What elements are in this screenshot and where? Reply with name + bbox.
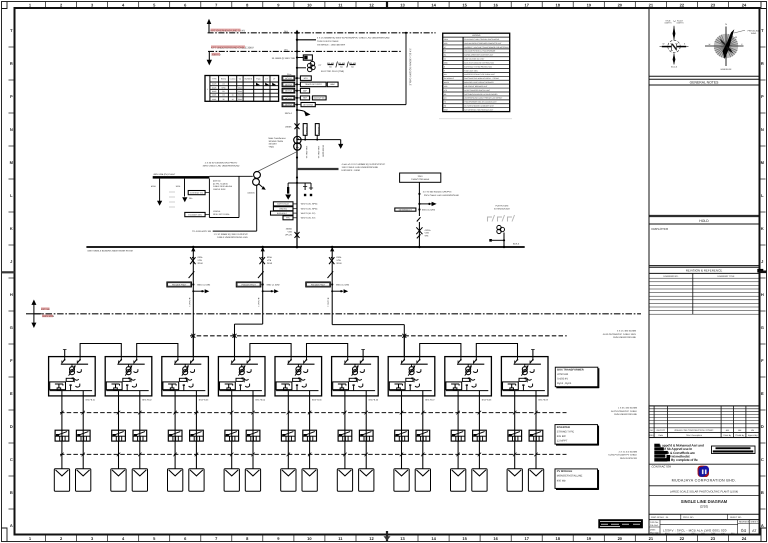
svg-text:6901 UL 5292: 6901 UL 5292 [267,283,281,286]
svg-text:MAIN SWITCHBOARD DISTRIBUTION: MAIN SWITCHBOARD DISTRIBUTION [464,61,495,64]
svg-text:METERING CT: METERING CT [399,209,413,212]
svg-text:(2/10): (2/10) [700,505,708,509]
svg-text:18: 18 [555,2,560,7]
svg-text:BHA *B.04: BHA *B.04 [255,398,265,401]
svg-text:6901 UL 5292: 6901 UL 5292 [197,283,211,286]
svg-text:P14x: P14x [287,73,291,76]
svg-text:REVISION & REFERENCE: REVISION & REFERENCE [686,269,723,273]
svg-text:CAPACITOR BANK: CAPACITOR BANK [411,178,430,181]
svg-text:SCALE: SCALE [671,66,678,69]
svg-text:REVISION: REVISION [739,521,750,524]
svg-text:4 sets of 4 X 1C 630MM SQ XLPE: 4 sets of 4 X 1C 630MM SQ XLPE/PVC/PVC [342,163,386,166]
svg-text:RUN UNDERGROUND: RUN UNDERGROUND [614,413,637,416]
svg-text:D: D [10,424,13,429]
svg-text:GEN. SETS 100%: GEN. SETS 100% [213,213,230,216]
svg-text:AM: AM [738,429,741,432]
svg-text:HOLD: HOLD [699,219,709,223]
svg-text:0.5: 0.5 [222,83,224,86]
svg-text:MONOCRYSTALLINE: MONOCRYSTALLINE [557,475,583,478]
svg-text:33KV CABLE LAID UNDERGROUND: 33KV CABLE LAID UNDERGROUND [203,165,240,168]
svg-text:SHEET: SHEET [751,521,759,524]
svg-text:SHEET NO.: SHEET NO. [730,516,742,519]
svg-text:EARTHING SYSTEM PROTECTION: EARTHING SYSTEM PROTECTION [464,65,492,68]
svg-text:VACUUM CIRCUIT BREAKER COMPLET: VACUUM CIRCUIT BREAKER COMPLETE UNIT [464,42,501,45]
svg-text:NUM: NUM [721,532,725,535]
svg-text:A: A [10,523,13,528]
svg-text:DWG: DWG [650,529,656,532]
svg-text:5P20: 5P20 [222,86,226,89]
svg-text:AL/PVC/SWA/PVC CABLE: AL/PVC/SWA/PVC CABLE [611,410,638,413]
svg-text:AL/XLPE/SWA/PVC CABLE 33KV: AL/XLPE/SWA/PVC CABLE 33KV [603,333,637,336]
svg-text:CABLE RISE 4B 4X4: CABLE RISE 4B 4X4 [213,185,233,188]
svg-text:VT: VT [444,50,446,53]
svg-text:N CL MZ 1: N CL MZ 1 [188,298,191,307]
svg-text:MCXN3: MCXN3 [285,83,292,86]
svg-text:21: 21 [649,2,654,7]
svg-text:800/5: 800/5 [212,83,216,86]
svg-text:10KA 33KV LA: 10KA 33KV LA [305,146,308,159]
svg-text:P: P [10,94,13,99]
svg-text:CU/XLPO/XLDBR PV CABLE: CU/XLPO/XLDBR PV CABLE [608,454,637,457]
svg-text:SURGE ARRESTER DIVERTER UNIT: SURGE ARRESTER DIVERTER UNIT [464,54,493,57]
svg-text:J: J [10,259,12,264]
svg-text:W: W [709,43,711,46]
svg-text:N CL MZ 1: N CL MZ 1 [327,298,330,307]
svg-text:400V AC: 400V AC [213,180,221,183]
svg-text:MCXN3: MCXN3 [285,97,292,100]
svg-text:WINDROSE: WINDROSE [721,68,733,71]
svg-text:KH: KH [751,429,754,432]
svg-text:UNDERGROUND CABLE TRENCH LAID: UNDERGROUND CABLE TRENCH LAID DIRECT [464,97,502,100]
svg-text:G: G [761,325,764,330]
svg-text:CONT: CONT [677,532,682,535]
svg-text:SINGLE RISE: SINGLE RISE [213,188,226,191]
svg-text:Chckd By: Chckd By [735,434,745,437]
svg-text:MCCB: MCCB [444,81,450,84]
svg-text:24: 24 [742,2,747,7]
svg-text:2 X 3C x 300MM SQ 33KV CABLE: 2 X 3C x 300MM SQ 33KV CABLE [409,49,412,86]
svg-text:23: 23 [711,2,716,7]
svg-text:K: K [761,226,764,231]
svg-text:1: 1 [207,88,208,91]
svg-text:TO AUXILIARY S/B: TO AUXILIARY S/B [192,230,212,233]
svg-text:20: 20 [618,536,623,541]
svg-text:24: 24 [742,536,747,541]
svg-text:2P.50: 2P.50 [336,262,342,265]
svg-text:WIND: WIND [751,32,757,35]
svg-text:PHOTOVOLTAIC MODULE ARRAY - ST: PHOTOVOLTAIC MODULE ARRAY - STRING [464,77,499,80]
svg-text:H: H [761,292,764,297]
svg-text:BS EN 60099: BS EN 60099 [322,145,325,156]
svg-text:WHDT1 (KL NPW): WHDT1 (KL NPW) [301,203,318,206]
svg-text:15: 15 [462,2,467,7]
svg-text:20: 20 [618,2,623,7]
svg-text:SINGLE LINE DIAGRAM: SINGLE LINE DIAGRAM [681,499,728,504]
svg-text:33KV A: 33KV A [285,112,293,115]
svg-text:BUS A: BUS A [513,242,520,245]
svg-text:R: R [761,61,764,66]
svg-text:10: 10 [232,94,234,97]
svg-text:STANDBY GEN: STANDBY GEN [188,213,202,216]
svg-text:AM: AM [726,429,729,432]
svg-text:12: 12 [369,536,374,541]
svg-text:2 X 33 KV DESIGN GAS PROTO: 2 X 33 KV DESIGN GAS PROTO [205,162,238,165]
svg-text:04: 04 [741,528,746,533]
svg-text:NORTH: NORTH [665,22,672,25]
svg-text:BHA *B.08: BHA *B.08 [482,398,492,401]
svg-text:DISTANCE : 100M: DISTANCE : 100M [342,169,360,172]
svg-text:22: 22 [680,536,685,541]
svg-text:100A: 100A [176,185,181,188]
svg-text:R: R [10,61,13,66]
svg-text:14: 14 [431,2,436,7]
svg-text:BHA *B.06: BHA *B.06 [369,398,379,401]
svg-text:STRING TYPE: STRING TYPE [557,430,575,433]
svg-text:FEEDER PROT: FEEDER PROT [311,284,326,287]
svg-text:10: 10 [307,536,312,541]
svg-text:DC SWITCHBOARD COMBINER UNIT: DC SWITCHBOARD COMBINER UNIT [464,105,494,108]
svg-text:MOULDED CASE CIRCUIT BREAKER: MOULDED CASE CIRCUIT BREAKER [464,81,494,84]
svg-text:EMPLOYER: EMPLOYER [652,227,670,231]
svg-text:AIR CIRCUIT BREAKER UNIT: AIR CIRCUIT BREAKER UNIT [464,85,487,88]
svg-text:FEEDER PROT: FEEDER PROT [172,284,187,287]
svg-text:A: A [761,523,764,528]
svg-text:F: F [444,69,445,72]
svg-text:4750 kVA: 4750 kVA [557,373,568,376]
svg-text:16: 16 [493,2,498,7]
svg-text:33.15MW @ 33KV TNB: 33.15MW @ 33KV TNB [272,57,296,60]
svg-text:BHA *B.03: BHA *B.03 [199,398,209,401]
svg-text:Drwn By: Drwn By [723,434,732,437]
svg-text:13: 13 [400,2,405,7]
svg-text:3 X TO 300 SQ.MM XLPE/PVC: 3 X TO 300 SQ.MM XLPE/PVC [423,191,452,194]
svg-text:22: 22 [680,2,685,7]
svg-text:400/1: 400/1 [212,94,216,97]
svg-text:CONTRACTOR: CONTRACTOR [652,465,672,469]
svg-text:12: 12 [369,2,374,7]
svg-text:P.Qty: P.Qty [256,78,260,81]
svg-text:22: 22 [735,36,737,39]
svg-text:19: 19 [587,2,592,7]
svg-text:LOW VOLTAGE 400 VOLT: LOW VOLTAGE 400 VOLT [464,58,484,61]
svg-text:DRAWING NO.: DRAWING NO. [664,275,679,278]
svg-text:THIS IS IN FS CABLE: THIS IS IN FS CABLE [317,40,339,43]
svg-text:21: 21 [649,536,654,541]
svg-text:4C PN, 70.4KVA: 4C PN, 70.4KVA [213,182,228,185]
svg-text:2P.50: 2P.50 [198,262,204,265]
svg-text:Plot Sign: Plot Sign [650,531,660,534]
svg-text:B: B [761,490,764,495]
svg-text:ELECTRO PLUS (TNB): ELECTRO PLUS (TNB) [321,70,344,73]
svg-text:630A: 630A [267,256,272,259]
svg-text:2000A: 2000A [286,228,293,231]
svg-text:DISTRIBUTION BOARD LV PANEL BO: DISTRIBUTION BOARD LV PANEL BOARD [464,93,498,96]
svg-text:WINDING: WINDING [279,208,288,211]
svg-text:04.07.22: 04.07.22 [657,429,666,432]
svg-text:WHDT1 (KL NPW): WHDT1 (KL NPW) [301,208,318,211]
svg-text:N: N [761,127,764,132]
svg-text:MUDAJAYA CORPORATION BHD.: MUDAJAYA CORPORATION BHD. [672,478,737,482]
svg-text:11KV CABLE LAID UNDERGROUND: 11KV CABLE LAID UNDERGROUND [342,166,379,169]
svg-text:CAD No.: CAD No. [650,521,659,524]
svg-text:FEEDER PROT: FEEDER PROT [241,284,256,287]
svg-text:13: 13 [400,536,405,541]
svg-text:G: G [10,325,13,330]
svg-text:23: 23 [711,536,716,541]
svg-text:33/11KV: 33/11KV [269,143,278,146]
svg-text:FOR FUTURE: FOR FUTURE [496,205,510,208]
svg-text:AUTO TRANSFER SWITCH UNIT: AUTO TRANSFER SWITCH UNIT [464,89,490,92]
svg-text:BUCHHOLZ: BUCHHOLZ [277,212,288,215]
svg-text:630A: 630A [336,256,341,259]
svg-text:0.5: 0.5 [222,94,224,97]
svg-text:19: 19 [587,536,592,541]
svg-text:KW METERING TNB REVENUE UNIT: KW METERING TNB REVENUE UNIT [464,109,493,112]
svg-text:TRANSFORMER 33/0.4KV 4000KVA U: TRANSFORMER 33/0.4KV 4000KVA UNIT [464,101,496,104]
svg-text:33 KILOVOLT HIGH TENSION SWITC: 33 KILOVOLT HIGH TENSION SWITCHGEAR [464,38,500,41]
svg-text:630A: 630A [198,256,203,259]
svg-text:NORTH: NORTH [677,22,684,25]
svg-text:2 X 1C 4.0 SQ.MM: 2 X 1C 4.0 SQ.MM [619,450,638,453]
svg-text:18: 18 [555,536,560,541]
svg-text:C: C [761,457,764,462]
svg-text:EXISTING TX1: EXISTING TX1 [190,191,203,194]
svg-text:RUN IN SPACER: RUN IN SPACER [620,457,637,460]
svg-text:CABLE UNDERGROUND LAID: CABLE UNDERGROUND LAID [217,236,248,239]
svg-text:PV MODULE: PV MODULE [444,77,455,80]
svg-text:400/1: 400/1 [212,98,216,101]
svg-text:12 MPPT: 12 MPPT [557,440,568,443]
svg-text:VCB: VCB [288,231,293,234]
svg-text:K: K [10,226,13,231]
svg-text:C: C [10,457,13,462]
svg-text:GENERAL NOTES: GENERAL NOTES [690,81,719,85]
svg-text:VCB: VCB [267,259,272,262]
svg-text:33KV: 33KV [418,175,424,178]
svg-text:Apprvd By: Apprvd By [748,434,759,437]
svg-text:EARTH FAULT: EARTH FAULT [277,203,290,206]
svg-text:H: H [10,292,13,297]
svg-text:METERING: METERING [303,103,314,106]
svg-text:B: B [10,490,13,495]
svg-text:17: 17 [524,536,529,541]
svg-text:P: P [761,94,764,99]
svg-text:ON GRADE : 1X50 400 MTR: ON GRADE : 1X50 400 MTR [317,43,346,46]
svg-text:17: 17 [524,2,529,7]
svg-text:MCXN3: MCXN3 [285,77,292,80]
svg-text:100KVA: 100KVA [247,192,255,195]
svg-text:SA 30KA: SA 30KA [305,127,308,135]
svg-text:BHA *B.01: BHA *B.01 [86,398,96,401]
svg-text:DWG SCALE : A1: DWG SCALE : A1 [651,516,669,519]
svg-text:J: J [761,259,763,264]
svg-text:33KV SINGLE BUSBAR 2000A SWGR: 33KV SINGLE BUSBAR 2000A SWGR ROOM [87,250,132,253]
svg-text:0.4/33 kV: 0.4/33 kV [557,378,568,381]
svg-text:VCB: VCB [425,232,430,235]
svg-text:EXTENSION BAY: EXTENSION BAY [494,208,511,211]
svg-text:N: N [670,42,678,53]
svg-text:Title / Description: Title / Description [686,434,703,437]
svg-text:400A: 400A [151,185,156,188]
svg-text:W: W [663,42,665,45]
svg-text:3 X 1C 400 SQ.MM: 3 X 1C 400 SQ.MM [617,330,636,333]
svg-text:800/5: 800/5 [212,86,216,89]
svg-text:BHA *B.02: BHA *B.02 [142,398,152,401]
svg-text:BCU: BCU [304,77,309,80]
svg-text:RATIO: RATIO [221,78,227,81]
svg-text:Dyn1 , Dyn1: Dyn1 , Dyn1 [557,382,572,385]
svg-text:TRAFO DIFF PROT: TRAFO DIFF PROT [305,83,323,86]
svg-text:400V MSB (PV) PLANT: 400V MSB (PV) PLANT [153,173,176,176]
svg-text:LSSPV : SPCL - MCB ALA ZWG: LSSPV : SPCL - MCB ALA ZWG 0001 020 [663,529,727,533]
svg-text:2000A: 2000A [285,125,292,128]
svg-text:INVERTER: INVERTER [557,426,570,429]
svg-text:800-400: 800-400 [338,62,346,65]
svg-text:CT: CT [444,46,446,49]
svg-text:800/5: 800/5 [212,90,216,93]
svg-text:4 X 1C 500MM SQ 33KV XLPE/SWA/: 4 X 1C 500MM SQ 33KV XLPE/SWA/PVC CABLE … [317,37,390,40]
svg-text:WHDT1 (KL KV): WHDT1 (KL KV) [301,217,316,220]
svg-text:800-400: 800-400 [349,62,357,65]
svg-text:BOX TRANSFORMER: BOX TRANSFORMER [557,368,584,371]
svg-text:PV MODULE: PV MODULE [557,470,573,473]
svg-text:4701A: 4701A [425,229,432,232]
svg-text:BHA *B.07: BHA *B.07 [425,398,435,401]
svg-text:PROJ: PROJ [665,532,670,535]
svg-text:N: N [10,127,13,132]
svg-text:FUSE UNIT 33KV: FUSE UNIT 33KV [464,69,478,72]
svg-text:6901 UL 5292: 6901 UL 5292 [336,283,350,286]
svg-text:CLASS: CLASS [230,78,237,81]
svg-text:10KA 33KV LA: 10KA 33KV LA [317,146,320,159]
svg-text:LEGEND: LEGEND [472,34,481,37]
svg-text:INVERTER STRING TYPE 215KW UNI: INVERTER STRING TYPE 215KW UNIT [464,73,495,76]
svg-text:VCB: VCB [336,259,341,262]
svg-text:PROJ. NO.: PROJ. NO. [683,516,694,519]
svg-text:30 MVA ONAN: 30 MVA ONAN [269,140,284,143]
svg-text:10: 10 [232,98,234,101]
svg-text:6301 UL 5292: 6301 UL 5292 [422,208,436,211]
svg-text:BHA *B.09: BHA *B.09 [538,398,548,401]
svg-text:VCB: VCB [198,259,203,262]
svg-text:File Ref.: File Ref. [650,524,659,527]
svg-text:N CL MZ 1: N CL MZ 1 [257,298,260,307]
svg-text:MCXN3: MCXN3 [285,104,292,107]
svg-text:RUN UNDERGROUND: RUN UNDERGROUND [613,336,636,339]
svg-text:BURDEN: BURDEN [245,78,253,81]
svg-text:1 X 3C 150 SQ.MM: 1 X 3C 150 SQ.MM [618,407,637,410]
svg-text:TYPE: TYPE [212,78,217,81]
svg-text:450 Wp: 450 Wp [557,479,566,482]
svg-text:LARGE SCALE SOLAR PHOTOVOLTAIC: LARGE SCALE SOLAR PHOTOVOLTAIC PLANT (LS… [670,490,738,493]
svg-text:1 X 3C 35MM SQ 33KV XLPE/PVC: 1 X 3C 35MM SQ 33KV XLPE/PVC [214,233,249,236]
svg-text:DRAWING TITLE: DRAWING TITLE [717,275,735,278]
svg-text:15: 15 [462,536,467,541]
svg-text:REV: REV [649,434,654,437]
svg-text:BACKUP OC: BACKUP OC [314,97,326,100]
svg-text:E: E [761,391,764,396]
svg-text:Main Transformer: Main Transformer [269,137,286,140]
svg-text:ISSUED FOR CONSTRUCTION / CONS: ISSUED FOR CONSTRUCTION / CONST. [674,429,714,432]
svg-text:100KVA: 100KVA [213,210,221,213]
svg-text:E: E [10,391,13,396]
svg-text:2PLUS: 2PLUS [285,234,292,237]
svg-text:CURRENT / VOLTAGE TRANSFORMER: CURRENT / VOLTAGE TRANSFORMER FOR METERI… [464,46,509,49]
svg-text:WHDT1 (KL PV): WHDT1 (KL PV) [301,212,316,215]
svg-text:D: D [761,424,764,429]
svg-text:2P.50: 2P.50 [267,262,273,265]
svg-text:33KV CABLE LAID UNDERGROUND: 33KV CABLE LAID UNDERGROUND [424,194,459,197]
svg-text:215 kW: 215 kW [557,435,566,438]
svg-text:BHA *B.05: BHA *B.05 [312,398,322,401]
svg-text:SA 30KA: SA 30KA [317,127,320,135]
svg-text:800-400: 800-400 [327,62,335,65]
svg-text:YNd1: YNd1 [269,145,275,148]
svg-text:16: 16 [493,536,498,541]
svg-text:VOLTAGE POTENTIAL TRANSFORMER: VOLTAGE POTENTIAL TRANSFORMER [464,50,496,53]
svg-text:MCXN3: MCXN3 [285,90,292,93]
svg-text:14: 14 [431,536,436,541]
svg-text:10: 10 [307,2,312,7]
